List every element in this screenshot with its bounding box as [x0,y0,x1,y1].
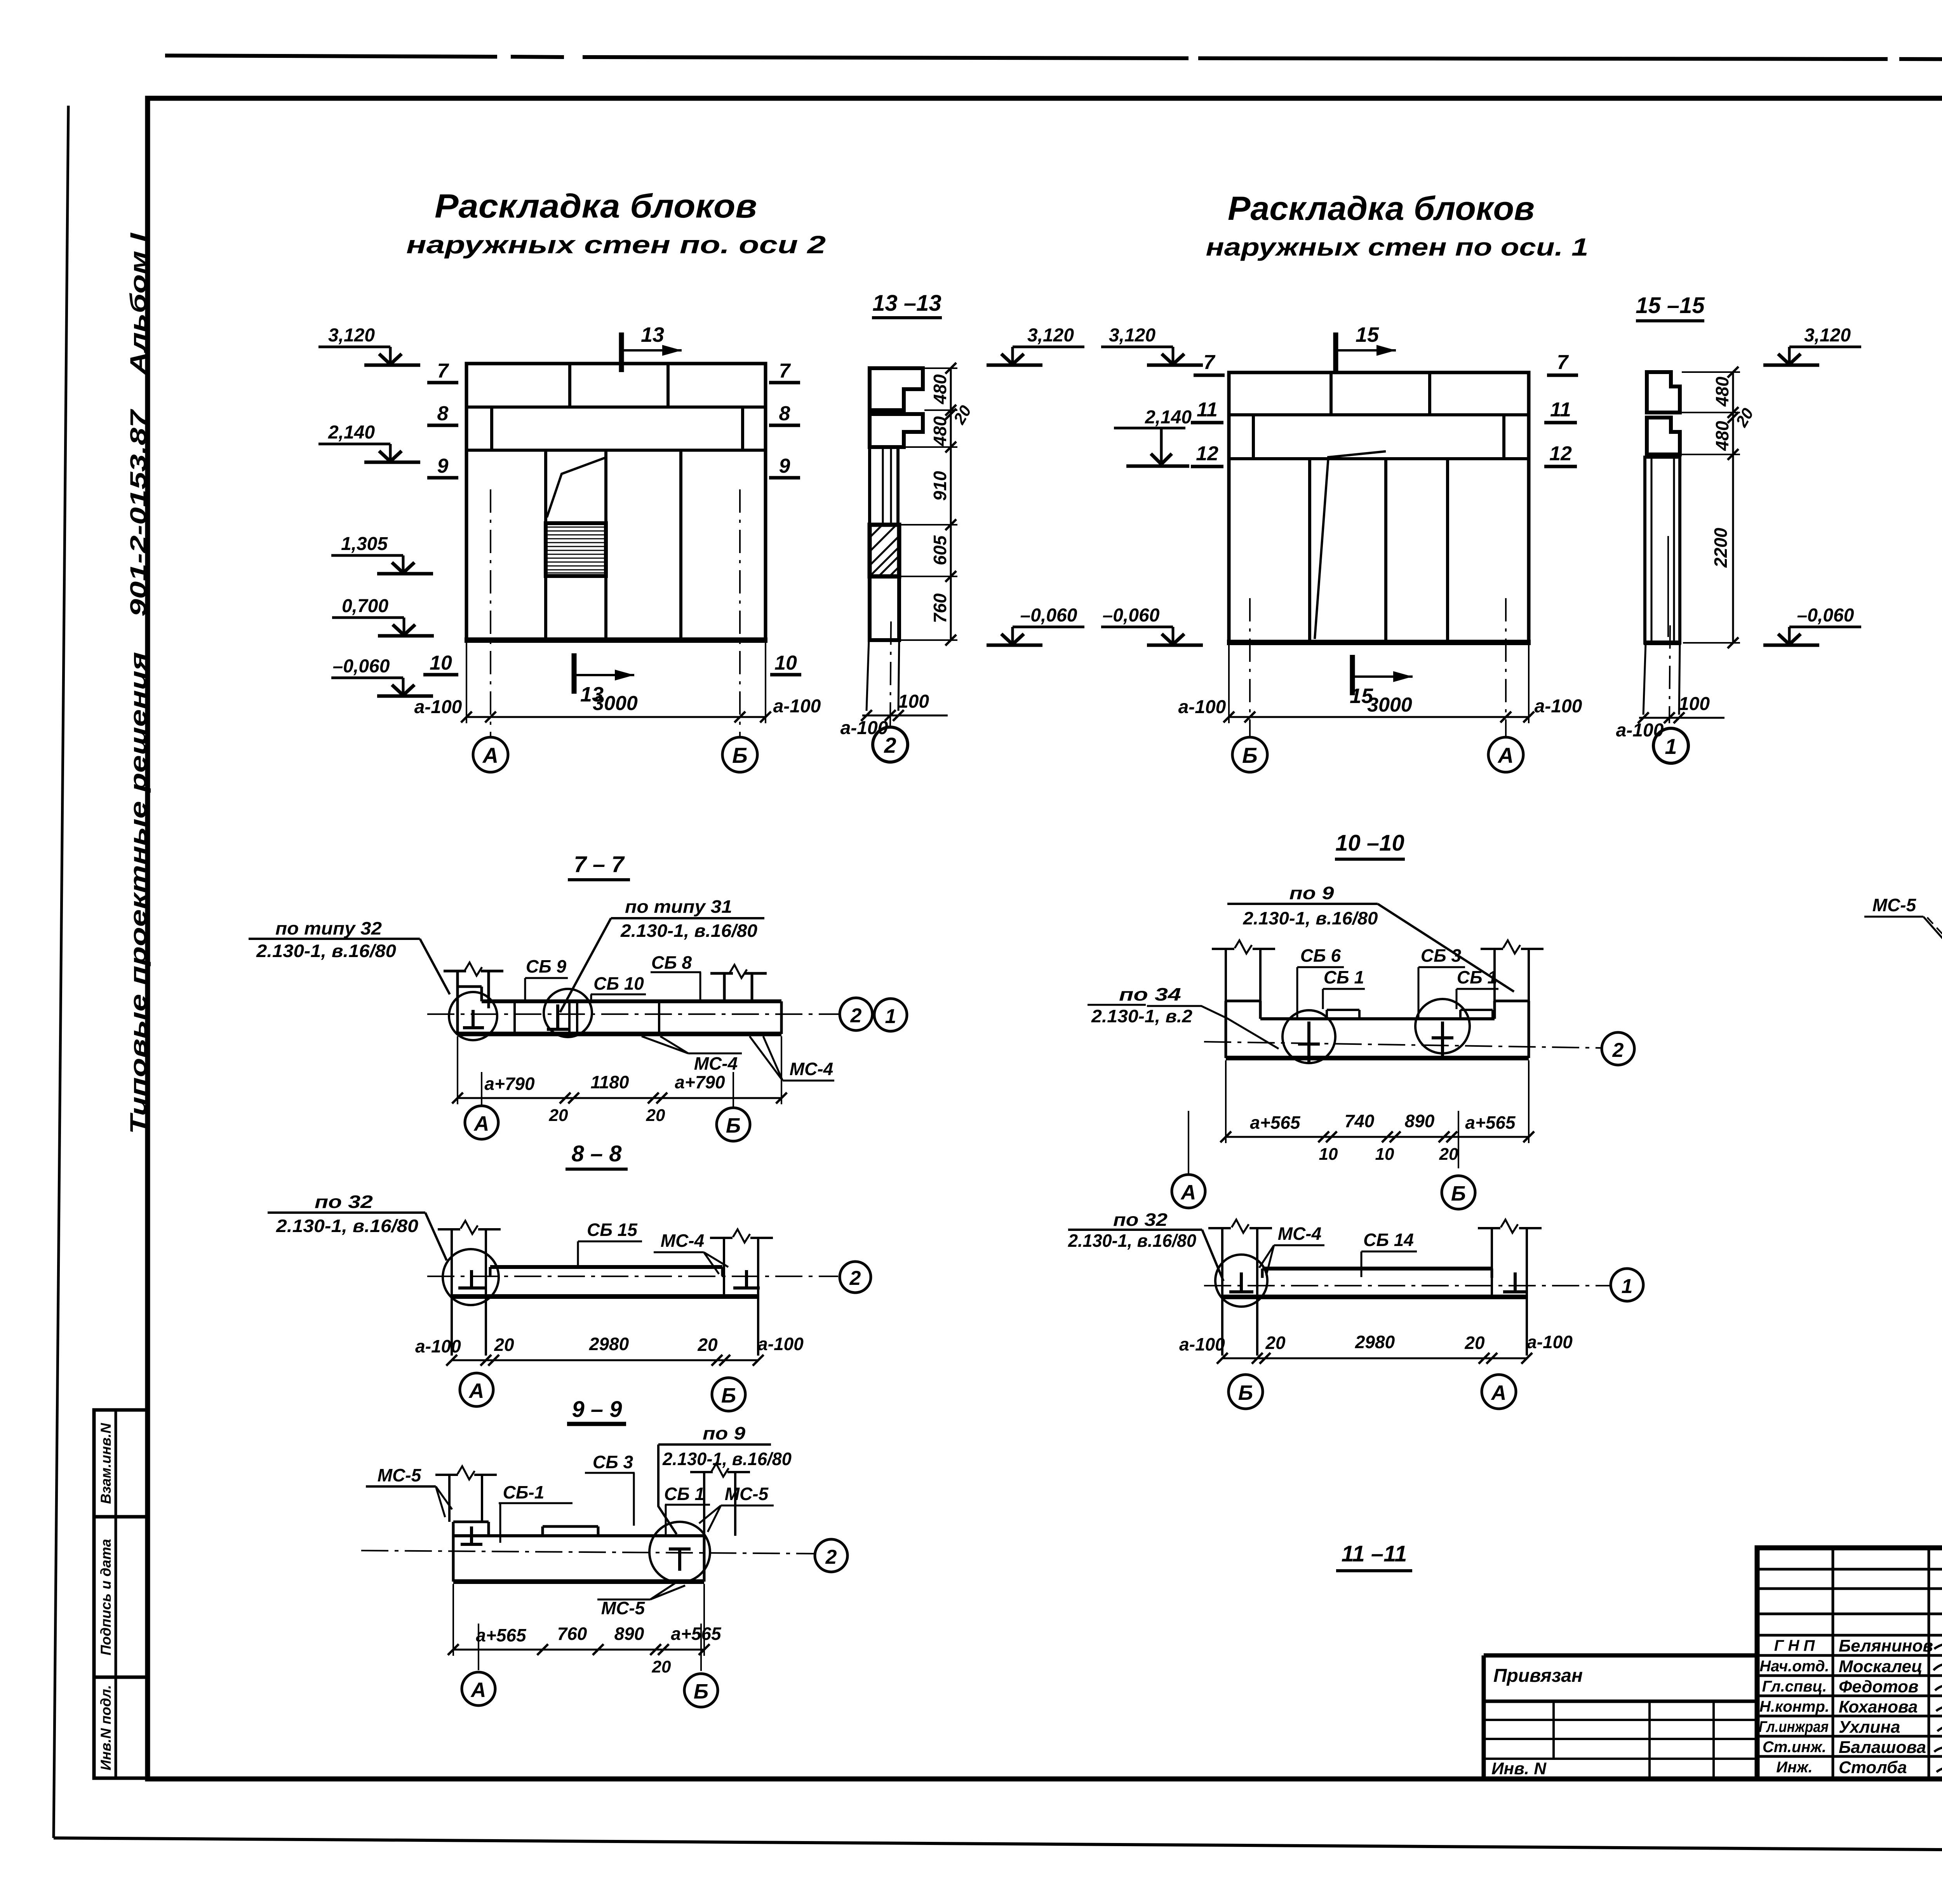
svg-text:20: 20 [1439,1145,1458,1164]
svg-text:100: 100 [898,691,929,712]
left pier [435,1475,497,1522]
svg-text:12: 12 [1196,442,1218,465]
label SB10 [591,973,646,1001]
grid circle 2 [1602,1032,1634,1065]
left pier [438,1229,501,1356]
grid circle 2 [840,1262,871,1293]
dimension line [448,1584,722,1676]
vertical dim stack [1682,367,1757,648]
svg-text:480: 480 [1712,376,1732,407]
plan bar [1222,1269,1527,1297]
svg-text:Гл.инжрая: Гл.инжрая [1759,1718,1829,1735]
grid circle A [1488,737,1523,772]
right pier break [1501,1220,1518,1233]
dimension line [1179,1332,1573,1364]
svg-text:А: А [482,743,498,768]
svg-text:15: 15 [1350,684,1373,708]
svg-text:3,120: 3,120 [1804,325,1851,346]
svg-text:МС-4: МС-4 [1278,1224,1321,1244]
grid circle A [460,1373,493,1406]
svg-text:а+565: а+565 [1250,1112,1301,1133]
course line 9 [466,449,766,452]
svg-text:а-100: а-100 [415,1336,461,1356]
right pier [1481,949,1544,1001]
hatched block 605 [870,525,899,576]
svg-text:Б: Б [726,1114,741,1137]
svg-text:2980: 2980 [1355,1332,1395,1352]
axis line A right [1505,598,1507,736]
svg-text:3,120: 3,120 [1027,325,1074,346]
svg-text:СБ 3: СБ 3 [1421,945,1462,966]
left pier break [458,1466,475,1479]
svg-text:10: 10 [1319,1145,1338,1164]
joint anchors [461,1526,691,1571]
svg-text:20: 20 [646,1106,665,1125]
svg-text:а+565: а+565 [1465,1112,1516,1133]
signature table verticals [1833,1548,1942,1779]
break line in panel [547,457,607,517]
leader type 31 [560,896,764,1012]
course line 11 [1229,413,1529,416]
foundation lines below [1643,643,1680,715]
svg-text:13 –13: 13 –13 [872,291,941,316]
svg-text:Белянинов: Белянинов [1839,1636,1933,1655]
svg-text:СБ 8: СБ 8 [651,952,692,973]
svg-text:2.130-1, в.16/80: 2.130-1, в.16/80 [276,1216,419,1236]
svg-text:а+790: а+790 [675,1072,725,1092]
section 7-7 title [568,852,630,880]
svg-text:1,305: 1,305 [341,534,388,554]
left pier [1212,949,1275,1001]
left pier [444,971,503,1008]
svg-text:100: 100 [1679,694,1710,714]
svg-text:7: 7 [1557,351,1569,374]
leader po 34 [1088,984,1279,1049]
level -0.060 [331,656,433,696]
svg-text:13: 13 [580,683,604,706]
svg-text:МС-4: МС-4 [661,1230,704,1251]
level 3.120 right [1763,325,1861,365]
paper edge left [54,106,68,1838]
svg-text:Н.контр.: Н.контр. [1759,1698,1829,1715]
svg-text:МС-4: МС-4 [790,1059,833,1079]
svg-text:Г Н П: Г Н П [1774,1637,1815,1654]
wall bottom thick line [1227,640,1531,645]
svg-text:по типу 32: по типу 32 [275,918,382,938]
grid circle 1 [874,999,907,1031]
svg-text:СБ 3: СБ 3 [593,1452,633,1472]
svg-text:480: 480 [1712,421,1732,451]
right pier break [712,1464,729,1477]
svg-text:8 – 8: 8 – 8 [572,1141,622,1166]
label MS-4 [1259,1224,1324,1276]
svg-text:по 9: по 9 [703,1423,745,1443]
svg-text:МС-5: МС-5 [601,1598,646,1618]
lintel course joints [1252,415,1255,459]
svg-text:15: 15 [1356,323,1379,346]
svg-text:7: 7 [1204,351,1216,374]
svg-text:СБ 9: СБ 9 [526,956,567,976]
grid circle 2 [815,1539,847,1572]
wall part 910 [870,447,898,525]
svg-text:7: 7 [779,360,791,382]
grid circle 1 [1611,1269,1643,1301]
axis line 2 [890,621,891,726]
grid circle A [1482,1375,1516,1409]
dimension line [415,1334,804,1366]
svg-text:8: 8 [437,402,449,425]
svg-text:2: 2 [825,1546,837,1568]
course line 8 [466,406,766,409]
dimension line [1189,1060,1534,1174]
svg-text:Б: Б [694,1680,708,1703]
level -0.060 [1101,605,1203,645]
svg-text:9: 9 [437,455,449,477]
grid circle B [1229,1375,1263,1409]
svg-text:10: 10 [430,652,452,674]
section 10-10 title [1335,830,1405,859]
svg-text:2: 2 [1612,1039,1624,1062]
vertical dim stack [901,363,975,646]
svg-text:Раскладка блоков: Раскладка блоков [435,188,757,225]
svg-text:А: А [1497,743,1514,768]
detail circle [443,1249,499,1305]
leader po 32 [1068,1210,1223,1281]
svg-text:1: 1 [885,1005,896,1028]
svg-text:2: 2 [884,733,896,757]
names column [1839,1636,1933,1777]
svg-text:15 –15: 15 –15 [1636,293,1705,318]
svg-text:8: 8 [779,402,790,425]
svg-text:Раскладка блоков: Раскладка блоков [1228,190,1535,227]
detail circle middle [544,989,592,1037]
grid circle A [465,1106,498,1139]
grid circle B [717,1108,750,1141]
course labels right [769,360,801,675]
dimension line 3000 [414,643,821,723]
grid circle 2 [840,998,872,1030]
grid circle B [1442,1176,1475,1209]
svg-text:3,120: 3,120 [1109,325,1155,346]
detail circle left [1282,1010,1335,1063]
svg-text:Привязан: Привязан [1493,1666,1583,1686]
svg-text:2,140: 2,140 [328,422,375,443]
svg-text:7: 7 [437,360,449,382]
block course 1 (480) [870,368,923,410]
right pier [1478,1228,1542,1356]
course labels left [423,360,458,675]
svg-text:1: 1 [1665,734,1677,759]
label SB8 [651,952,701,1001]
right pier [690,1472,750,1536]
svg-text:Инв.N подл.: Инв.N подл. [98,1685,114,1770]
svg-text:11 –11: 11 –11 [1342,1541,1407,1566]
detail circle [649,1522,710,1582]
top course joints [568,364,571,407]
bar centreline [1204,1285,1610,1286]
leader po 32 [268,1192,447,1260]
svg-text:740: 740 [1345,1111,1375,1131]
axis line 1 [1669,625,1670,723]
svg-text:Ст.инж.: Ст.инж. [1763,1739,1826,1756]
left pier [1208,1228,1272,1356]
right pier [710,1238,773,1356]
grid circle A [1172,1175,1205,1208]
svg-text:2: 2 [849,1267,861,1290]
big course joints [1308,459,1311,642]
level 2.140 [318,422,420,462]
svg-text:2980: 2980 [589,1334,629,1354]
grid circle B [722,737,757,772]
signatures [1933,1644,1942,1775]
svg-text:2.130-1, в.16/80: 2.130-1, в.16/80 [620,921,757,941]
left pier break [461,1221,478,1234]
block course 1 (480) [1647,372,1680,412]
svg-text:10: 10 [1375,1145,1394,1164]
paper edge top [165,56,1942,61]
bar centreline [1204,1042,1602,1048]
svg-text:9: 9 [779,455,790,477]
svg-text:а-100: а-100 [773,696,821,717]
svg-text:Ухлина: Ухлина [1839,1718,1900,1737]
svg-text:а-100: а-100 [1527,1332,1573,1352]
svg-text:А: А [468,1379,484,1403]
svg-text:СБ 1: СБ 1 [1457,967,1497,987]
wall outline axis 1 [1229,372,1529,642]
svg-text:Столба: Столба [1839,1758,1907,1777]
plan bar [452,1267,758,1297]
label SB-1 [499,1482,573,1543]
svg-text:–0,060: –0,060 [1797,605,1854,626]
roles column [1759,1637,1829,1776]
svg-text:СБ 1: СБ 1 [1324,967,1364,987]
svg-text:А: А [1180,1181,1196,1204]
svg-text:890: 890 [1405,1111,1435,1131]
svg-text:Коханова: Коханова [1839,1697,1918,1716]
level 3.120 [1101,325,1203,365]
section 11-11 title [1336,1541,1412,1571]
svg-text:по 32: по 32 [315,1192,373,1212]
label MS-4 second [750,1036,834,1081]
svg-text:а-100: а-100 [1179,1334,1225,1354]
dimension line 3000 [1178,645,1582,723]
label MS-5 right [699,1484,774,1532]
svg-text:480: 480 [930,374,950,404]
course line 12 [1229,457,1529,460]
label MS-5 [1864,895,1942,993]
course labels left [1191,351,1225,466]
leader po 9 [1227,883,1514,992]
label SB 6 [1297,945,1344,1018]
svg-text:а-100: а-100 [414,697,462,717]
svg-text:СБ 14: СБ 14 [1363,1230,1414,1250]
svg-text:СБ 1: СБ 1 [664,1484,705,1504]
label SB 1 right [664,1484,710,1534]
level 2.140 [1114,407,1192,466]
svg-text:Гл.спвц.: Гл.спвц. [1762,1678,1827,1695]
svg-text:Инв. N: Инв. N [1491,1759,1547,1778]
left pier break [1235,940,1252,954]
svg-text:СБ 6: СБ 6 [1300,945,1341,966]
svg-text:по 32: по 32 [1113,1210,1168,1230]
block course 2 (480) [870,414,923,447]
svg-text:480: 480 [930,416,950,446]
svg-text:Б: Б [721,1384,736,1407]
svg-text:а+565: а+565 [671,1624,722,1644]
brick hatch block [546,523,606,576]
label SB 14 [1361,1230,1417,1277]
svg-text:СБ-1: СБ-1 [503,1482,545,1502]
svg-text:20: 20 [652,1657,671,1676]
svg-text:2: 2 [850,1004,862,1027]
svg-text:Типовые проектные решения: Типовые проектные решения 901-2-0153.87 … [126,232,151,1134]
detail circle [1215,1255,1267,1307]
grid circle A [473,737,508,772]
axis line B [739,489,741,736]
svg-text:20: 20 [697,1335,718,1355]
svg-text:910: 910 [930,471,950,501]
svg-text:1180: 1180 [591,1072,629,1092]
grid circle 1 [1653,728,1688,763]
svg-text:Б: Б [732,743,748,768]
plan bar with steps [1226,1001,1529,1058]
svg-text:а+790: а+790 [484,1074,535,1094]
svg-text:3000: 3000 [1367,694,1412,716]
svg-text:по 9: по 9 [1289,883,1335,903]
foundation lines below [867,640,899,711]
svg-text:760: 760 [557,1624,587,1644]
svg-text:10: 10 [774,652,797,674]
svg-text:–0,060: –0,060 [1103,605,1160,626]
svg-text:2.130-1, в.16/80: 2.130-1, в.16/80 [1242,908,1378,928]
wall bottom thick [1644,640,1681,645]
signature table horizontals [1757,1569,1942,1756]
section mark 15 bottom [1350,655,1413,708]
svg-text:760: 760 [930,593,950,623]
paper edge bottom [54,1838,1942,1854]
level 3.120 [318,325,420,365]
svg-text:12: 12 [1549,442,1572,465]
svg-text:9 – 9: 9 – 9 [572,1397,622,1422]
big course joints [544,450,547,640]
left pier break [465,962,482,976]
level 3.120 (for section 13-13) [987,325,1084,365]
svg-text:Москалец: Москалец [1839,1657,1923,1676]
level -0.060 right [1763,605,1861,645]
svg-text:СБ 15: СБ 15 [587,1220,638,1240]
axis line B left [1249,598,1251,736]
svg-text:20: 20 [494,1335,514,1355]
label MS-4 first [642,1036,742,1074]
svg-text:А: А [470,1678,486,1702]
svg-text:А: А [473,1112,489,1135]
right pier break [730,965,747,978]
joint anchors [458,1270,760,1288]
svg-text:2.130-1, в.16/80: 2.130-1, в.16/80 [662,1449,792,1469]
grid circle 2 [873,727,908,762]
svg-text:Балашова: Балашова [1839,1738,1926,1757]
svg-text:МС-5: МС-5 [378,1465,422,1485]
joint anchors [1229,1272,1527,1292]
break line in panel [1315,451,1386,639]
svg-text:по типу 31: по типу 31 [625,896,732,917]
leader po 9 [658,1423,792,1534]
section 13-13 title [872,291,942,318]
grid circle B [712,1378,745,1411]
dim 100 [840,691,948,738]
svg-text:890: 890 [614,1624,644,1644]
svg-text:11: 11 [1197,399,1218,421]
svg-text:20: 20 [1265,1333,1286,1353]
wall bottom thick line [465,637,767,643]
section 15-15 title [1636,293,1705,321]
svg-text:а-100: а-100 [1178,697,1226,717]
left pier break [1232,1220,1249,1233]
block course 2 (480) [1647,418,1680,454]
label SB15 [578,1220,642,1266]
svg-text:20: 20 [1464,1333,1485,1353]
svg-text:МС-5: МС-5 [725,1484,769,1504]
svg-text:2.130-1, в.16/80: 2.130-1, в.16/80 [256,941,396,961]
detail circle right [1415,999,1470,1053]
svg-text:Б: Б [1242,743,1258,768]
section mark 13 top [621,323,682,372]
svg-text:1: 1 [1622,1275,1633,1298]
course labels right [1544,351,1578,466]
grid circle B [684,1674,718,1707]
title block outline [1757,1548,1942,1779]
svg-text:13: 13 [641,323,664,346]
svg-text:–0,060: –0,060 [333,656,390,677]
svg-text:МС-5: МС-5 [1872,895,1917,915]
level 1.305 [331,534,433,574]
svg-text:2,140: 2,140 [1145,407,1192,428]
svg-text:МС-4: МС-4 [694,1053,738,1074]
section mark 15 top [1336,323,1396,372]
plan bar with steps [453,1522,704,1582]
section mark 13 bottom [574,653,634,706]
svg-text:Инж.: Инж. [1776,1759,1813,1776]
svg-text:по 34: по 34 [1119,984,1181,1004]
svg-text:СБ 10: СБ 10 [593,973,644,994]
svg-text:2200: 2200 [1711,527,1731,568]
svg-text:наружных стен по оси. 1: наружных стен по оси. 1 [1206,233,1589,261]
right pier break [733,1229,750,1243]
grid circle B [1232,737,1267,772]
block 760 [870,576,899,640]
svg-text:20: 20 [549,1106,568,1125]
svg-text:11: 11 [1550,399,1571,421]
svg-text:А: А [1491,1381,1507,1405]
label SB9 [525,956,568,1001]
plan bar [458,987,781,1034]
right pier break [1503,940,1520,954]
axis line A [490,489,491,736]
svg-text:0,700: 0,700 [342,596,388,616]
svg-text:Нач.отд.: Нач.отд. [1759,1658,1829,1675]
section 9-9 title [567,1397,626,1424]
detail circle left [449,992,497,1040]
dim 100 [1616,694,1724,741]
label SB 3 [1418,945,1465,1018]
label MS-5 bottom [597,1583,685,1618]
svg-text:605: 605 [930,535,950,565]
joint anchors [1298,1022,1453,1062]
privyazan cell [1484,1655,1757,1779]
svg-text:7 – 7: 7 – 7 [574,852,625,877]
dimension line [452,1036,787,1125]
joint anchors [463,1004,569,1029]
